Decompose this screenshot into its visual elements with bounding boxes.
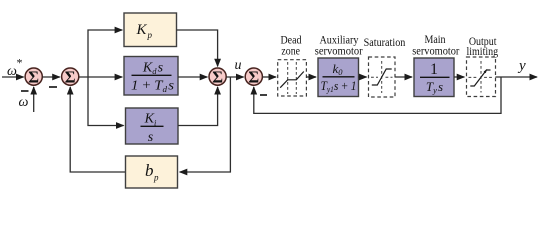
summing junction S3 [209,67,226,86]
block Ki transfer function [126,108,179,145]
wire Kd output to S3 [178,76,207,78]
svg-text:p: p [153,173,159,183]
dead zone block [278,60,307,96]
minus sign at S2 [49,86,57,88]
svg-text:Ty1s + 1: Ty1s + 1 [321,79,357,94]
wire auxiliary servomotor to saturation [359,76,367,78]
svg-text:1 + Td s: 1 + Td s [131,79,175,95]
block bp [126,156,178,188]
wire u tap down to bp input [180,77,231,172]
minus sign at S4 [260,94,267,96]
svg-text:b: b [145,161,154,180]
svg-text:servomotor: servomotor [315,46,363,58]
block auxiliary servomotor [318,58,359,97]
wire main servomotor to output limiting [454,76,464,78]
summing junction S4 [245,67,262,86]
wire branch node to Ki [88,77,124,126]
block main servomotor [414,58,454,97]
minus sign at S1 [21,90,29,92]
svg-text:ω: ω [19,95,29,110]
label Output limiting [466,36,498,58]
label u [235,58,242,73]
svg-text:Σ: Σ [248,67,259,86]
saturation block [369,57,396,97]
label Saturation [364,37,406,49]
svg-text:Main: Main [424,34,445,46]
wire input to S1 [2,76,24,78]
svg-text:Σ: Σ [65,67,76,86]
svg-text:*: * [17,56,23,70]
label Dead zone [280,35,301,58]
svg-text:s: s [148,130,154,145]
label omega feedback [19,95,29,110]
wire Ki output to S3 bottom [178,87,218,126]
label Main servomotor [412,34,459,58]
wire omega feedback into S1 bottom [33,87,35,112]
label Auxiliary servomotor [315,35,363,58]
wire branch node to Kp [88,30,122,77]
svg-text:u: u [235,58,242,73]
svg-text:servomotor: servomotor [412,46,459,58]
svg-text:Σ: Σ [212,67,223,86]
wire saturation to main servomotor [395,76,412,78]
wire S1 to S2 [42,76,60,78]
wire output feedback to S4 bottom [254,77,501,113]
label y [517,58,526,74]
label omega* input [7,56,23,80]
output limiting block [467,57,496,97]
wire output to y [496,76,538,78]
summing junction S1 [25,67,42,86]
svg-text:1: 1 [430,61,438,78]
summing junction S2 [62,67,79,86]
wire S4 to dead zone [262,76,276,78]
svg-text:zone: zone [281,46,300,58]
svg-text:limiting: limiting [466,46,498,58]
svg-text:y: y [517,58,526,74]
block Kp [124,13,177,47]
block Kd transfer function [124,57,178,96]
wire dead zone to auxiliary servomotor [306,76,316,78]
wire S2 to Kd block [79,76,122,78]
svg-text:Saturation: Saturation [364,37,406,49]
wire Kp output to S3 top [177,30,218,66]
wire S3 to S4 with node u [226,76,243,78]
svg-text:Σ: Σ [28,67,39,86]
wire bp feedback riser into S2 bottom [70,87,125,172]
svg-text:K: K [136,22,148,38]
svg-text:p: p [147,30,153,40]
